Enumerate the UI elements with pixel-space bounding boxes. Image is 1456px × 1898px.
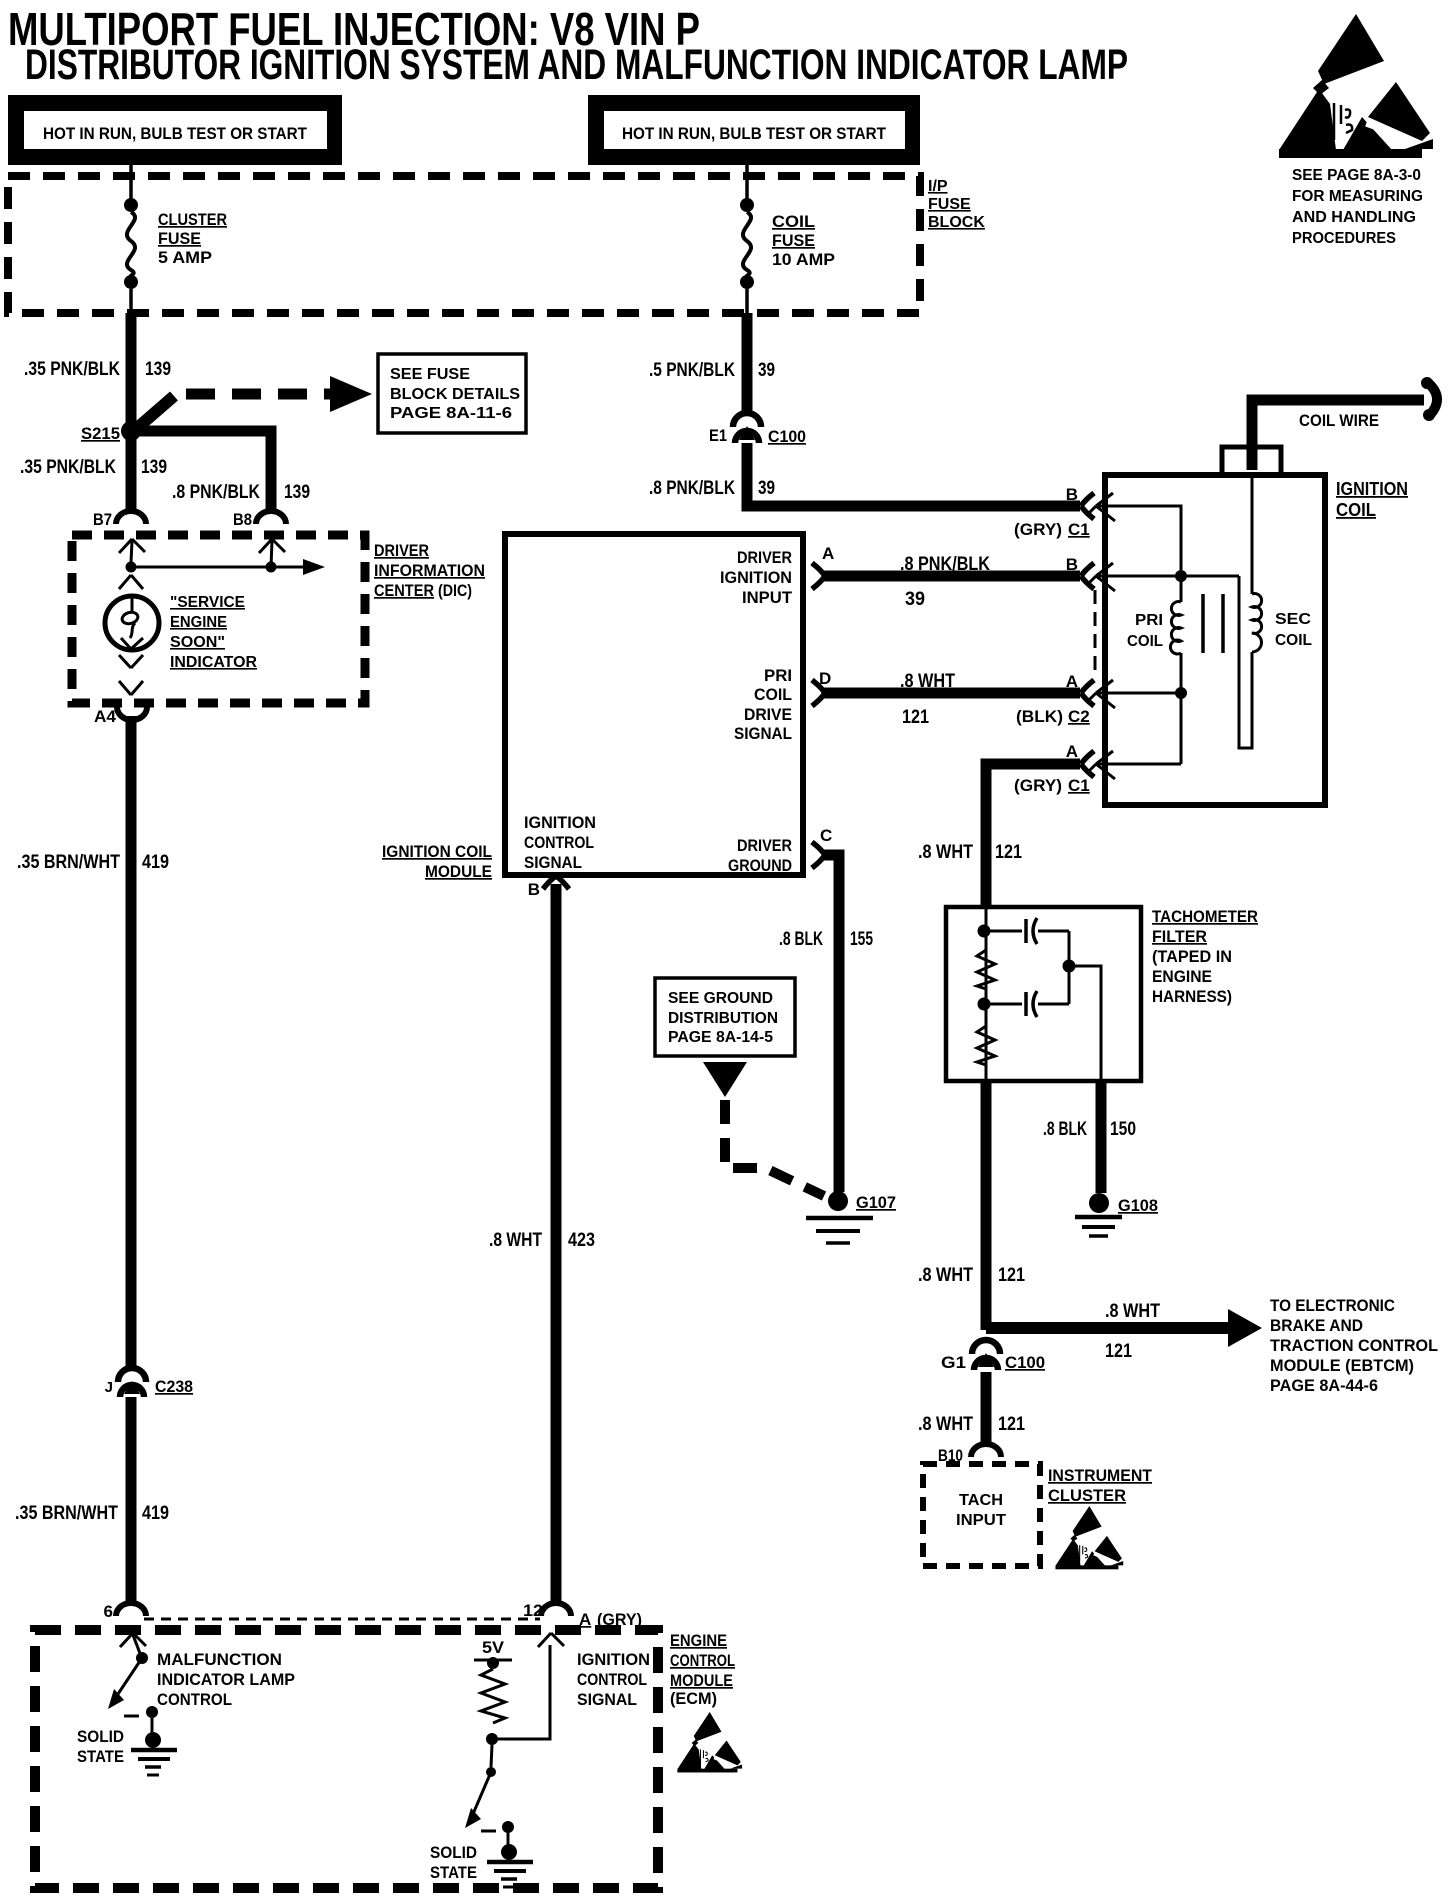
svg-text:CONTROL: CONTROL — [577, 1670, 647, 1689]
wire label .8 PNK/BLK 39 right — [649, 478, 775, 499]
svg-text:12: 12 — [523, 1601, 543, 1620]
ground G108 — [1075, 1193, 1158, 1236]
MIL control switch — [108, 1652, 161, 1748]
node tach mid — [978, 998, 991, 1011]
svg-text:I/P: I/P — [928, 178, 948, 195]
I/P fuse block label — [928, 178, 985, 231]
wire label .8 WHT 121 mid — [900, 671, 955, 728]
SES label — [170, 594, 257, 671]
ECM label — [670, 1631, 735, 1708]
svg-text:.35 BRN/WHT: .35 BRN/WHT — [15, 1503, 118, 1524]
svg-text:.35 BRN/WHT: .35 BRN/WHT — [17, 852, 120, 873]
connector C238 — [105, 1368, 193, 1397]
wire cluster fuse to S215 — [126, 313, 137, 431]
svg-text:(ECM): (ECM) — [670, 1689, 717, 1708]
wire label .8 WHT 423 — [489, 1230, 595, 1251]
module terminal C — [812, 826, 832, 868]
svg-text:COIL: COIL — [1275, 632, 1312, 649]
splice S215 dot — [121, 421, 141, 441]
tach output wire — [1069, 966, 1101, 1081]
svg-text:.8 BLK: .8 BLK — [779, 929, 823, 950]
power label box left — [8, 95, 342, 165]
ICS switch — [465, 1745, 517, 1860]
coil core — [1203, 594, 1223, 653]
terminal 6 — [104, 1602, 146, 1621]
svg-text:A: A — [579, 1610, 591, 1629]
terminal A4 — [94, 707, 147, 726]
svg-text:139: 139 — [141, 457, 167, 478]
wire label .35 BRN/WHT 419 upper — [17, 852, 169, 873]
svg-text:DRIVER: DRIVER — [374, 541, 429, 560]
B upper id — [1014, 520, 1090, 539]
svg-text:S215: S215 — [81, 424, 120, 443]
svg-text:C100: C100 — [768, 427, 806, 446]
svg-text:C100: C100 — [1005, 1353, 1045, 1372]
title line 2 — [25, 41, 1128, 89]
ECM entry arrow pin6 — [120, 1633, 146, 1656]
svg-text:.5 PNK/BLK: .5 PNK/BLK — [649, 360, 735, 381]
svg-text:PROCEDURES: PROCEDURES — [1292, 230, 1396, 247]
wire label .35 PNK/BLK 139 upper — [24, 359, 171, 380]
svg-text:FUSE: FUSE — [772, 231, 815, 250]
coil internal B mid wire — [1097, 575, 1239, 578]
svg-text:DRIVE: DRIVE — [744, 705, 792, 724]
svg-text:39: 39 — [758, 478, 775, 499]
svg-text:139: 139 — [284, 482, 310, 503]
wire G1 to B10 — [981, 1372, 992, 1443]
coil fuse label — [772, 212, 835, 269]
svg-text:5V: 5V — [482, 1638, 505, 1657]
tach capacitor C1 — [984, 918, 1069, 962]
wire label .8 BLK 150 — [1043, 1119, 1136, 1140]
cluster fuse label — [158, 210, 227, 267]
MIL control label — [157, 1650, 295, 1709]
svg-text:FILTER: FILTER — [1152, 927, 1207, 946]
coil internal A C1 wire — [1097, 693, 1181, 764]
svg-text:CENTER (DIC): CENTER (DIC) — [374, 581, 472, 600]
pri coil label — [1127, 612, 1163, 650]
wire label .8 BLK 155 — [779, 929, 873, 950]
svg-text:DISTRIBUTOR IGNITION SYSTEM AN: DISTRIBUTOR IGNITION SYSTEM AND MALFUNCT… — [25, 41, 1128, 89]
svg-text:D: D — [819, 669, 831, 688]
module internal labels — [524, 548, 793, 875]
wire tach filter to G1 — [981, 1081, 992, 1330]
svg-text:SEE PAGE 8A-3-0: SEE PAGE 8A-3-0 — [1292, 167, 1421, 184]
svg-text:J: J — [105, 1379, 113, 1396]
svg-text:C1: C1 — [1068, 776, 1090, 795]
wire module C to G107 — [824, 855, 839, 1192]
DIC entry arrow B7 — [119, 539, 145, 562]
node DIC junction left — [126, 562, 137, 573]
svg-text:SIGNAL: SIGNAL — [734, 724, 792, 743]
svg-text:MODULE (EBTCM): MODULE (EBTCM) — [1270, 1356, 1414, 1375]
svg-text:.8 WHT: .8 WHT — [918, 1414, 973, 1435]
wire hot to coil fuse — [745, 165, 749, 200]
svg-text:.8 WHT: .8 WHT — [918, 842, 973, 863]
svg-text:A4: A4 — [94, 707, 117, 726]
DIC label — [374, 541, 485, 600]
svg-text:GROUND: GROUND — [728, 856, 792, 875]
wire branch to EBTCM — [986, 1309, 1262, 1347]
svg-text:155: 155 — [850, 929, 873, 950]
svg-text:AND HANDLING: AND HANDLING — [1292, 209, 1416, 226]
svg-text:.8 BLK: .8 BLK — [1043, 1119, 1087, 1140]
driver information center box — [72, 535, 365, 703]
wire label .8 WHT 121 coil — [918, 842, 1022, 863]
svg-text:CONTROL: CONTROL — [157, 1690, 232, 1709]
svg-text:STATE: STATE — [430, 1863, 477, 1882]
ESD symbol instrument cluster — [1055, 1506, 1123, 1569]
svg-text:A: A — [1066, 742, 1078, 761]
svg-text:CONTROL: CONTROL — [670, 1651, 735, 1670]
solid state label left — [77, 1727, 124, 1766]
svg-text:PRI: PRI — [764, 666, 792, 685]
module label — [382, 842, 492, 881]
SES indicator lamp — [105, 596, 159, 650]
svg-text:IGNITION: IGNITION — [720, 568, 792, 587]
svg-text:G107: G107 — [856, 1193, 896, 1212]
svg-text:BRAKE AND: BRAKE AND — [1270, 1316, 1363, 1335]
node ECM resistor bottom — [486, 1733, 498, 1745]
coil terminal A C2 — [1066, 672, 1115, 708]
svg-text:SEC: SEC — [1275, 611, 1311, 628]
solid state label right — [430, 1843, 477, 1882]
svg-text:TACHOMETER: TACHOMETER — [1152, 907, 1258, 926]
wire A4 to ECM pin 6 — [126, 716, 137, 1601]
node tach top — [978, 925, 991, 938]
wire label .35 PNK/BLK 139 lower — [20, 457, 167, 478]
svg-text:121: 121 — [1105, 1341, 1132, 1362]
wire C100 to ignition coil B — [747, 443, 1080, 506]
svg-text:SEE FUSE: SEE FUSE — [390, 366, 470, 383]
connector C100 E1 — [709, 413, 806, 446]
svg-text:.8 WHT: .8 WHT — [918, 1265, 973, 1286]
svg-text:C238: C238 — [155, 1377, 193, 1396]
svg-text:.8 WHT: .8 WHT — [1105, 1301, 1160, 1322]
svg-text:ENGINE: ENGINE — [170, 614, 227, 631]
svg-text:PAGE 8A-44-6: PAGE 8A-44-6 — [1270, 1376, 1378, 1395]
svg-text:.8 PNK/BLK: .8 PNK/BLK — [172, 482, 260, 503]
svg-text:39: 39 — [758, 360, 775, 381]
svg-text:B8: B8 — [233, 510, 252, 529]
coil terminal B upper — [1066, 485, 1115, 521]
coil terminal B lower — [1066, 555, 1115, 591]
ICS ground — [487, 1862, 533, 1887]
svg-text:(BLK): (BLK) — [1016, 707, 1063, 726]
ignition coil label — [1336, 479, 1408, 520]
wire label .8 PNK/BLK 139 — [172, 482, 310, 503]
MIL ground — [131, 1750, 177, 1775]
wire module B to ECM 12 — [551, 884, 562, 1601]
wire S215 to B7 — [126, 437, 137, 510]
coil wire label — [1299, 411, 1379, 430]
svg-text:FUSE: FUSE — [158, 229, 201, 248]
title line 1 — [8, 3, 700, 55]
wire label .8 PNK/BLK 39 mid — [900, 554, 990, 610]
svg-text:B7: B7 — [93, 510, 112, 529]
connector C100 G1 — [941, 1340, 1045, 1372]
terminal B10 — [938, 1444, 1001, 1465]
wire label .8 WHT 121 ebtcm — [1105, 1301, 1160, 1362]
lamp top chevron — [119, 575, 143, 589]
svg-text:IGNITION: IGNITION — [577, 1650, 650, 1669]
svg-text:ENGINE: ENGINE — [670, 1631, 727, 1650]
svg-text:B: B — [1066, 485, 1078, 504]
dashed wire to G107 — [725, 1100, 824, 1196]
svg-text:PAGE 8A-14-5: PAGE 8A-14-5 — [668, 1029, 773, 1046]
coil wire — [1252, 377, 1437, 470]
node DIC junction right — [266, 562, 277, 573]
svg-text:SIGNAL: SIGNAL — [577, 1690, 637, 1709]
svg-text:INPUT: INPUT — [742, 588, 793, 607]
splice S215 — [81, 424, 120, 443]
svg-text:BLOCK DETAILS: BLOCK DETAILS — [390, 386, 520, 403]
svg-text:10 AMP: 10 AMP — [772, 250, 835, 269]
svg-text:COIL: COIL — [772, 212, 815, 231]
svg-text:121: 121 — [998, 1265, 1025, 1286]
svg-text:ENGINE: ENGINE — [1152, 967, 1212, 986]
svg-text:(TAPED IN: (TAPED IN — [1152, 947, 1232, 966]
svg-text:TO ELECTRONIC: TO ELECTRONIC — [1270, 1296, 1395, 1315]
coil internal B top wire — [1097, 506, 1181, 570]
EBTCM note — [1270, 1296, 1438, 1395]
tach resistor R1 — [977, 950, 995, 989]
module terminal A — [812, 544, 834, 589]
svg-text:121: 121 — [995, 842, 1022, 863]
svg-text:CLUSTER: CLUSTER — [158, 210, 227, 229]
I/P fuse block box — [8, 176, 920, 313]
svg-text:39: 39 — [905, 589, 925, 610]
svg-text:STATE: STATE — [77, 1747, 124, 1766]
terminal B7 — [93, 510, 146, 529]
sec coil winding — [1239, 478, 1262, 748]
ground G107 — [806, 1191, 896, 1243]
svg-text:BLOCK: BLOCK — [928, 214, 985, 231]
svg-text:IGNITION: IGNITION — [1336, 479, 1408, 499]
svg-text:CONTROL: CONTROL — [524, 833, 594, 852]
5V supply — [474, 1638, 512, 1669]
wire label .8 WHT 121 lower — [918, 1265, 1025, 1286]
ECM signal wire to pin12 — [492, 1645, 550, 1739]
instrument cluster label — [1048, 1466, 1153, 1505]
svg-text:E1: E1 — [709, 426, 727, 445]
svg-text:DRIVER: DRIVER — [737, 836, 792, 855]
svg-text:419: 419 — [142, 852, 169, 873]
svg-text:MODULE: MODULE — [425, 862, 492, 881]
svg-text:TRACTION CONTROL: TRACTION CONTROL — [1270, 1336, 1438, 1355]
svg-text:COIL WIRE: COIL WIRE — [1299, 411, 1379, 430]
svg-text:G108: G108 — [1118, 1196, 1158, 1215]
ECM connector dashed line — [144, 1618, 540, 1621]
svg-text:A: A — [822, 544, 834, 563]
svg-text:.35 PNK/BLK: .35 PNK/BLK — [20, 457, 116, 478]
svg-text:INDICATOR LAMP: INDICATOR LAMP — [157, 1670, 295, 1689]
terminal 12 — [523, 1601, 571, 1620]
svg-text:.8 PNK/BLK: .8 PNK/BLK — [649, 478, 735, 499]
svg-text:423: 423 — [568, 1230, 595, 1251]
sec coil label — [1275, 611, 1312, 649]
svg-text:HOT IN RUN, BULB TEST OR START: HOT IN RUN, BULB TEST OR START — [43, 124, 308, 143]
svg-text:.8 PNK/BLK: .8 PNK/BLK — [900, 554, 990, 575]
lamp exit chevron 1 — [119, 655, 143, 668]
wire label .8 WHT 121 bottom — [918, 1414, 1025, 1435]
svg-text:419: 419 — [142, 1503, 169, 1524]
coil internal A C2 wire — [1097, 692, 1181, 695]
svg-text:.35 PNK/BLK: .35 PNK/BLK — [24, 359, 120, 380]
module terminal D — [812, 669, 831, 706]
coil tower terminal — [1222, 447, 1281, 475]
ECM pullup resistor — [481, 1669, 505, 1723]
pri coil winding — [1170, 576, 1181, 690]
DIC internal wire with arrow — [131, 559, 325, 575]
tach filter left rail — [985, 907, 988, 1081]
wire module D to coil A — [824, 688, 1080, 699]
coil terminal A C1 — [1066, 742, 1115, 779]
svg-text:HARNESS): HARNESS) — [1152, 987, 1232, 1006]
A C2 id — [1016, 707, 1090, 726]
tach capacitor C2 — [984, 970, 1069, 1017]
svg-text:.8 WHT: .8 WHT — [900, 671, 955, 692]
svg-text:SIGNAL: SIGNAL — [524, 853, 582, 872]
svg-text:MODULE: MODULE — [670, 1671, 733, 1690]
ESD note top — [1292, 167, 1423, 247]
A C1 id — [1014, 776, 1090, 795]
wire hot to cluster fuse — [129, 165, 133, 200]
tach input box — [923, 1464, 1040, 1566]
svg-text:139: 139 — [145, 359, 171, 380]
svg-text:6: 6 — [104, 1602, 113, 1621]
wire module A to coil B — [824, 571, 1080, 582]
svg-text:C2: C2 — [1068, 707, 1090, 726]
ECM box — [35, 1630, 658, 1888]
module terminal B — [528, 876, 569, 899]
svg-text:C1: C1 — [1068, 520, 1090, 539]
ground distribution pointer — [703, 1062, 747, 1097]
svg-text:B: B — [528, 880, 540, 899]
see ground distribution box — [655, 978, 795, 1056]
svg-text:121: 121 — [902, 707, 929, 728]
svg-text:DRIVER: DRIVER — [737, 548, 792, 567]
dashed wire S215 to fuse details note — [136, 376, 372, 429]
tachometer filter box — [946, 907, 1141, 1081]
svg-text:DISTRIBUTION: DISTRIBUTION — [668, 1010, 778, 1027]
svg-text:CLUSTER: CLUSTER — [1048, 1486, 1126, 1505]
wire tach to G108 — [1096, 1081, 1107, 1193]
svg-text:INFORMATION: INFORMATION — [374, 561, 485, 580]
cluster fuse F1 — [124, 198, 138, 313]
svg-text:(GRY): (GRY) — [1014, 776, 1062, 795]
svg-text:FOR MEASURING: FOR MEASURING — [1292, 188, 1423, 205]
lamp exit chevron 2 — [119, 681, 143, 695]
svg-text:INPUT: INPUT — [956, 1512, 1006, 1529]
wire coil A C1 to tach filter — [986, 764, 1080, 907]
DIC entry arrow B8 — [259, 539, 285, 567]
svg-text:C: C — [820, 826, 832, 845]
svg-text:121: 121 — [998, 1414, 1025, 1435]
svg-text:COIL: COIL — [1127, 633, 1163, 650]
svg-text:150: 150 — [1110, 1119, 1136, 1140]
svg-text:HOT IN RUN, BULB TEST OR START: HOT IN RUN, BULB TEST OR START — [622, 124, 887, 143]
svg-text:FUSE: FUSE — [928, 196, 971, 213]
node coil junction top — [1175, 570, 1187, 582]
terminal B8 — [233, 510, 286, 529]
tach filter label — [1152, 907, 1258, 1006]
coil connector dash C1-C2 — [1094, 590, 1097, 677]
svg-text:(GRY): (GRY) — [1014, 520, 1062, 539]
svg-text:5 AMP: 5 AMP — [158, 248, 212, 267]
svg-text:COIL: COIL — [1336, 500, 1376, 520]
tach resistor R2 — [977, 1026, 995, 1065]
coil fuse F2 — [740, 198, 754, 313]
ignition control signal label ECM — [577, 1650, 650, 1709]
see fuse block details box — [378, 354, 526, 433]
svg-text:SOON": SOON" — [170, 634, 225, 651]
wire S215 to B8 — [136, 431, 271, 512]
svg-text:INDICATOR: INDICATOR — [170, 654, 257, 671]
svg-text:COIL: COIL — [754, 685, 792, 704]
node tach caps junction — [1063, 960, 1076, 973]
ESD symbol ECM — [677, 1712, 742, 1772]
power label box right — [588, 95, 920, 165]
wire coil fuse to C100 — [742, 313, 753, 420]
svg-text:SOLID: SOLID — [77, 1727, 124, 1746]
svg-text:MALFUNCTION: MALFUNCTION — [157, 1650, 282, 1669]
svg-text:SEE GROUND: SEE GROUND — [668, 990, 773, 1007]
svg-text:INSTRUMENT: INSTRUMENT — [1048, 1466, 1153, 1485]
wire label .35 BRN/WHT 419 lower — [15, 1503, 169, 1524]
svg-text:TACH: TACH — [959, 1492, 1003, 1509]
svg-text:.8 WHT: .8 WHT — [489, 1230, 542, 1251]
node coil junction bottom — [1175, 687, 1187, 699]
ECM entry arrow pin12 — [538, 1633, 564, 1647]
pin12 label — [579, 1610, 642, 1629]
svg-text:PAGE 8A-11-6: PAGE 8A-11-6 — [390, 405, 512, 422]
svg-text:PRI: PRI — [1135, 612, 1163, 629]
svg-text:"SERVICE: "SERVICE — [170, 594, 245, 611]
svg-text:SOLID: SOLID — [430, 1843, 477, 1862]
ignition coil module box — [505, 534, 803, 875]
svg-text:IGNITION COIL: IGNITION COIL — [382, 842, 492, 861]
ESD warning symbol top — [1279, 14, 1433, 158]
ignition coil box — [1105, 475, 1325, 805]
svg-text:IGNITION: IGNITION — [524, 813, 596, 832]
svg-text:G1: G1 — [941, 1353, 966, 1372]
wire label .5 PNK/BLK 39 — [649, 360, 775, 381]
svg-text:(GRY): (GRY) — [597, 1610, 642, 1629]
